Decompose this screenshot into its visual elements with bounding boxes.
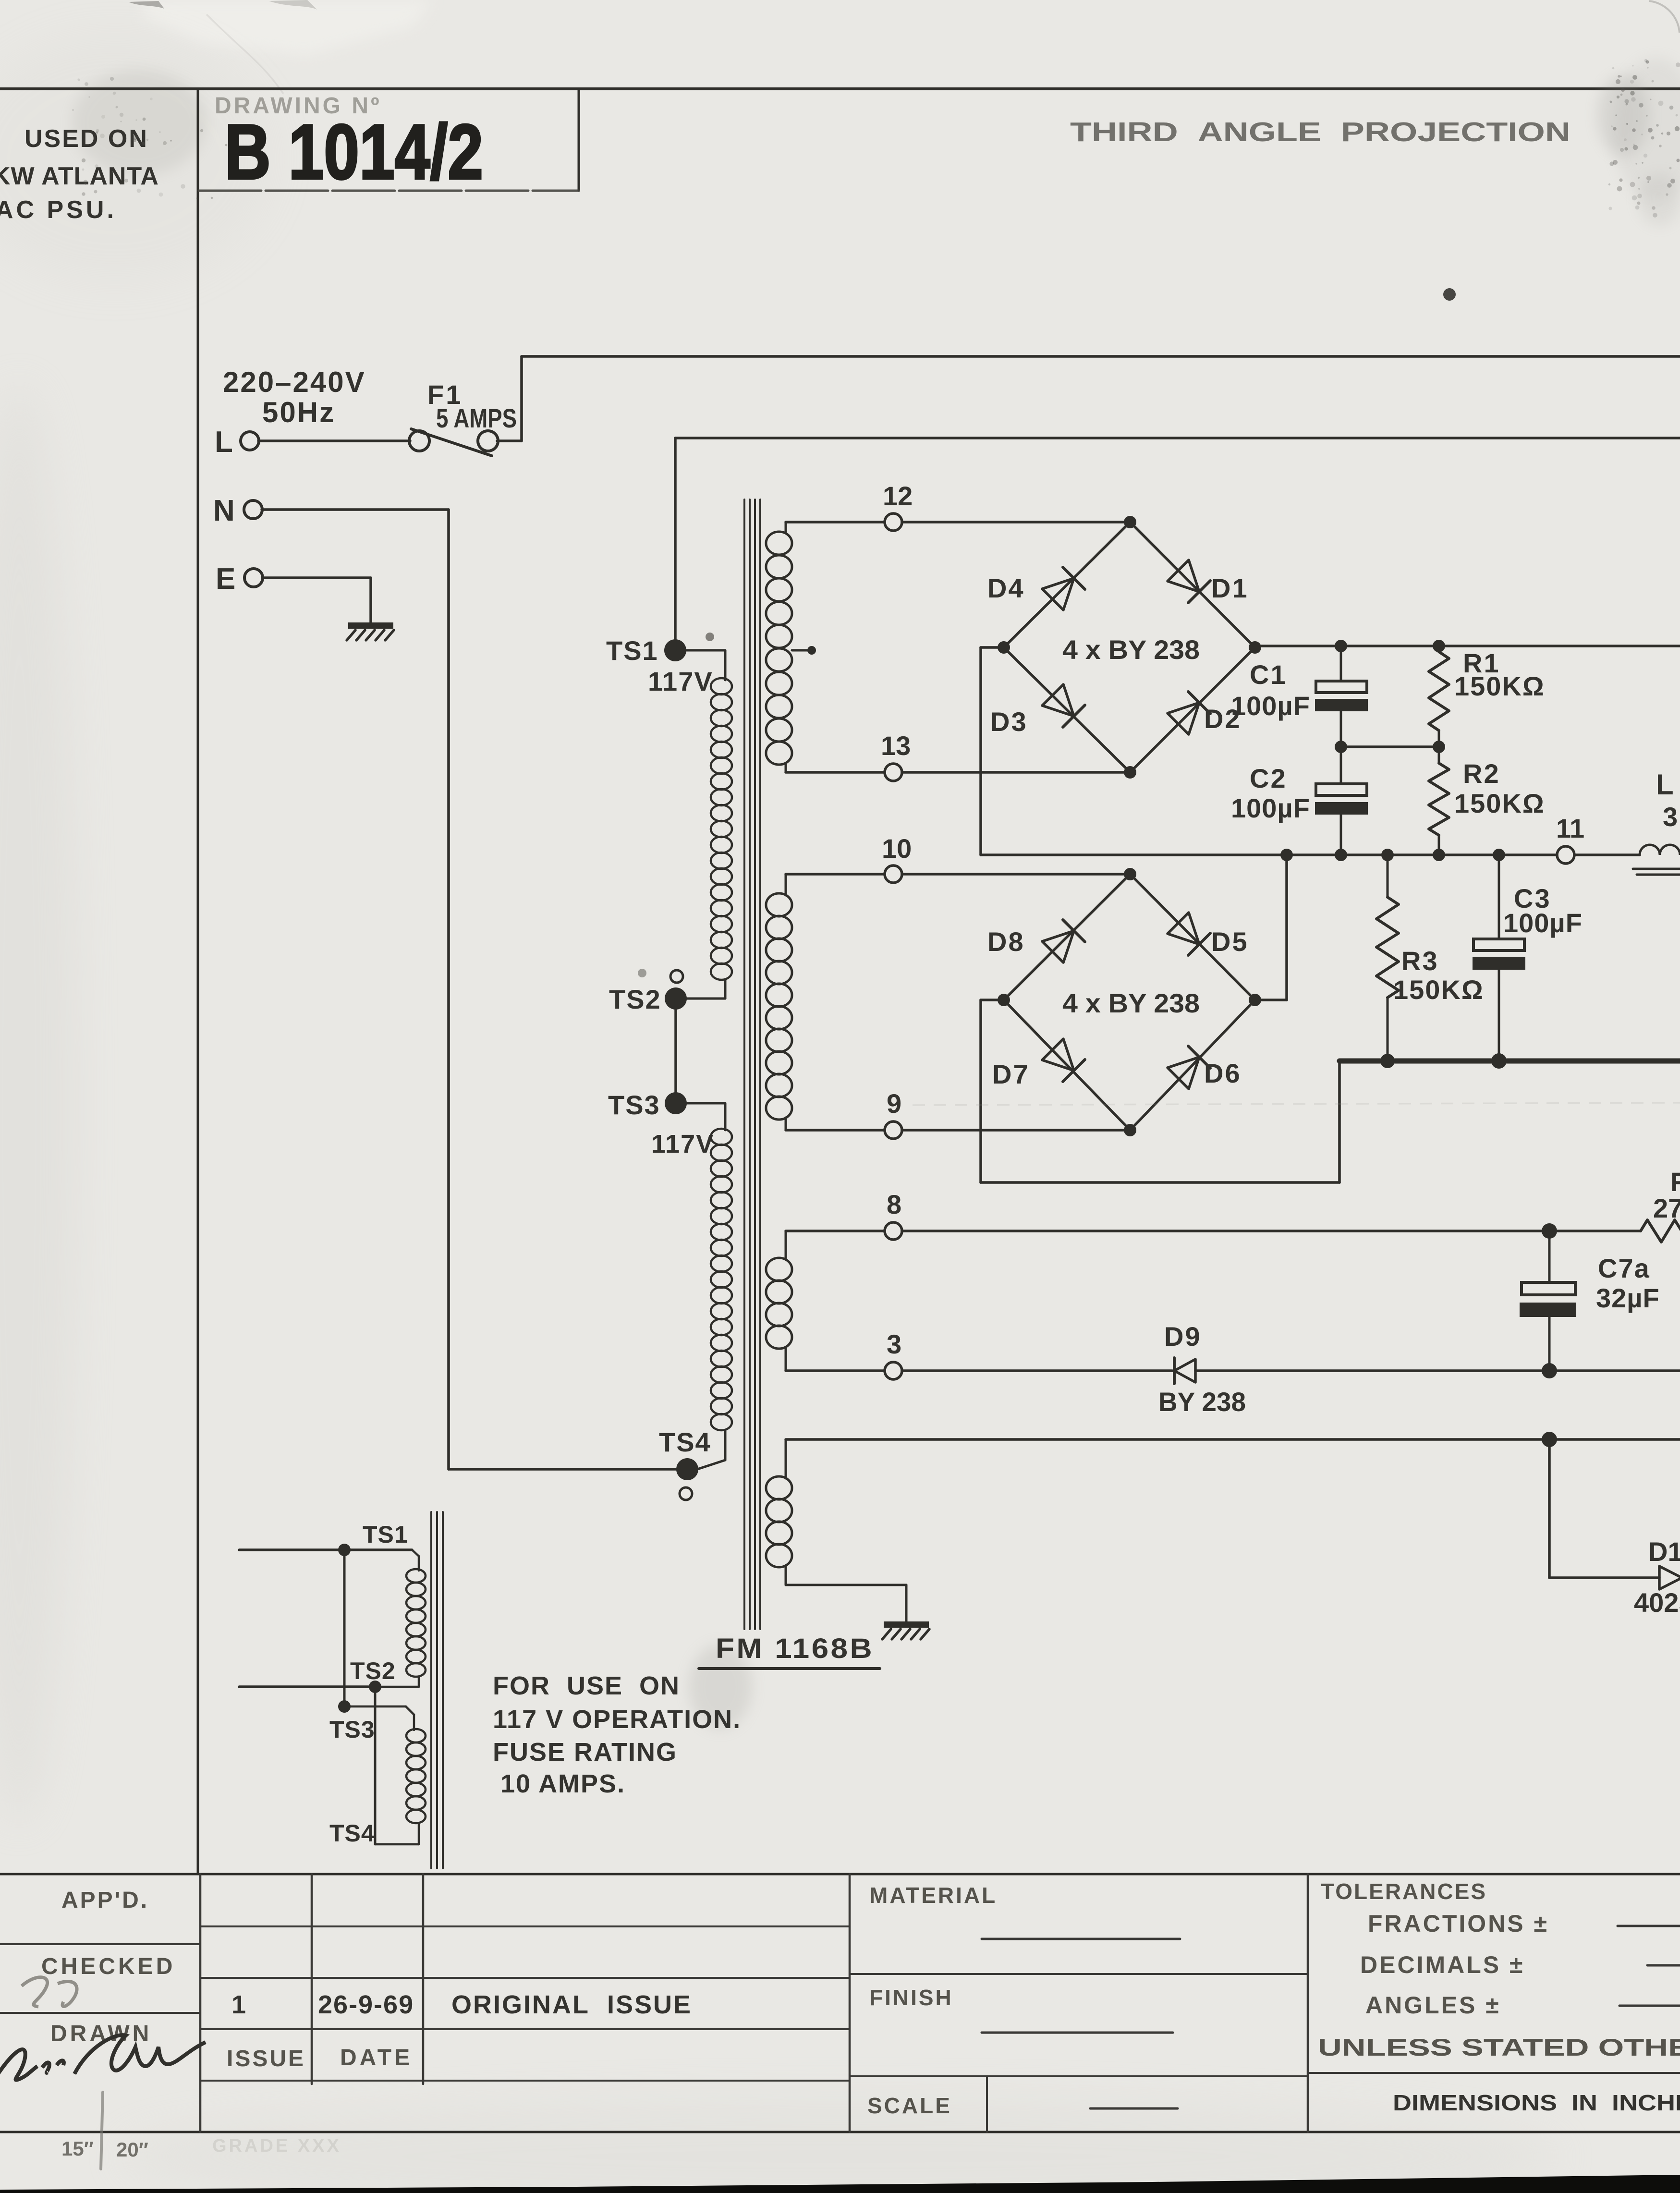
svg-text:10: 10 [882, 833, 912, 864]
terminal E [216, 562, 263, 596]
svg-text:D5: D5 [1211, 926, 1249, 957]
svg-text:TS1: TS1 [363, 1521, 408, 1548]
note for use on 117V [493, 1671, 741, 1798]
transformer T1 primary winding lower (TS3-TS4) [711, 1129, 732, 1430]
aux wire TS3 to winding lower [350, 1706, 414, 1730]
svg-text:TS1: TS1 [606, 635, 658, 666]
wire terminal 11 to choke [1574, 853, 1640, 856]
node C1/R1 mid [1335, 741, 1445, 753]
svg-text:C1: C1 [1250, 659, 1287, 690]
node bridge1 top [1124, 516, 1136, 528]
svg-text:D10: D10 [1648, 1536, 1680, 1567]
scale field [867, 2093, 1178, 2118]
tap TS2 [609, 984, 687, 1014]
capacitor C7a 32uF [1520, 1231, 1660, 1371]
svg-text:D1: D1 [1211, 573, 1249, 603]
svg-text:3: 3 [887, 1329, 901, 1359]
checked initials scribble [22, 1977, 77, 2007]
tolerances block [1318, 1879, 1680, 2061]
svg-text:3: 3 [1663, 802, 1678, 832]
svg-text:D4: D4 [987, 573, 1025, 603]
svg-text:R3: R3 [1401, 946, 1439, 976]
node bridge1 bottom [1124, 766, 1136, 779]
svg-text:TS4: TS4 [329, 1820, 375, 1847]
svg-text:4 x BY 238: 4 x BY 238 [1062, 634, 1200, 665]
wire D9 to C7a (net 3) [1195, 1369, 1680, 1372]
svg-text:D8: D8 [987, 926, 1025, 957]
rail bridge1 output (net +V1) [1260, 645, 1680, 647]
node mid rail C2 [1335, 849, 1347, 861]
resistor R3 150K [1376, 855, 1484, 1061]
transformer T1 secondary winding 12-13 [766, 532, 792, 765]
transformer T1 primary winding upper (TS1-TS2) [711, 678, 732, 980]
title block labels left [41, 1888, 175, 2047]
tap TS4 [659, 1427, 711, 1480]
choke L [1633, 768, 1680, 875]
wire winding to chassis ground [786, 1565, 906, 1621]
svg-text:CHECKED: CHECKED [41, 1954, 175, 1979]
svg-text:FRACTIONS ±: FRACTIONS ± [1368, 1910, 1549, 1937]
ground symbol (secondary) [882, 1621, 929, 1639]
svg-text:32µF: 32µF [1596, 1283, 1660, 1313]
secondary tap mark [792, 646, 816, 655]
svg-text:R2: R2 [1463, 758, 1500, 789]
wire terminal 12 to bridge 1 [902, 521, 1130, 524]
capacitor C2 100uF [1231, 747, 1368, 855]
svg-text:TS2: TS2 [350, 1657, 396, 1684]
heater rail (net 6.3V) [786, 1438, 1680, 1441]
diode D1 [1168, 560, 1249, 603]
svg-text:DIMENSIONS IN INCHES: DIMENSIONS IN INCHES [1393, 2090, 1680, 2115]
node 0V rail R3 [1380, 1054, 1395, 1068]
svg-text:150KΩ: 150KΩ [1393, 975, 1484, 1005]
svg-text:TS3: TS3 [329, 1716, 375, 1743]
svg-text:117 V OPERATION.: 117 V OPERATION. [493, 1705, 741, 1734]
svg-text:13: 13 [881, 731, 911, 761]
bridge2 type label 4 x BY 238 [1062, 988, 1200, 1018]
wire L to fuse [258, 439, 410, 442]
svg-text:APP'D.: APP'D. [61, 1888, 149, 1913]
svg-text:D3: D3 [990, 707, 1028, 737]
svg-text:TS4: TS4 [659, 1427, 711, 1457]
wire E to ground [262, 578, 371, 622]
drawing number box [199, 89, 579, 191]
svg-text:1: 1 [231, 1990, 246, 2019]
svg-text:FUSE RATING: FUSE RATING [493, 1738, 677, 1767]
diode D7 [992, 1039, 1085, 1089]
svg-text:117V: 117V [648, 666, 713, 696]
sheet size note 15x20 [61, 2092, 148, 2169]
diode D5 [1168, 913, 1249, 957]
aux node TS2 [350, 1657, 396, 1693]
top rail from fuse (net L) [522, 355, 1680, 358]
svg-text:D6: D6 [1204, 1058, 1242, 1088]
svg-text:4 x BY 238: 4 x BY 238 [1062, 988, 1200, 1018]
resistor R2 150K [1429, 747, 1545, 855]
node mid rail bridge2 [1280, 849, 1293, 861]
wire bridge1 left down to mid rail [981, 647, 1004, 855]
bridge rectifier 2 frame [1004, 874, 1255, 1130]
svg-text:12: 12 [883, 481, 913, 511]
resistor R4 270 (clipped) [1641, 1167, 1680, 1242]
diode D10 (clipped) [1634, 1536, 1680, 1618]
terminal 12 [883, 481, 913, 531]
fuse F1 5 AMPS [409, 379, 517, 456]
terminal 11 [1556, 813, 1584, 864]
svg-text:ORIGINAL ISSUE: ORIGINAL ISSUE [451, 1990, 692, 2019]
svg-text:TS3: TS3 [608, 1090, 660, 1120]
wire winding to terminal 8 [786, 1231, 885, 1260]
aux strap TS2-TS4 [329, 1687, 375, 1847]
terminal 9 [885, 1088, 902, 1139]
svg-text:ANGLES ±: ANGLES ± [1365, 1992, 1501, 2019]
wire bridge2 left to 0V rail [981, 1000, 1339, 1182]
tap TS3 117V [608, 1090, 714, 1158]
svg-text:9: 9 [887, 1088, 901, 1119]
svg-text:11: 11 [1556, 813, 1584, 843]
tap TS1 117V [606, 635, 713, 696]
node top rail / R1 [1433, 640, 1445, 652]
mid rail (net 11) [981, 853, 1557, 856]
aux strap TS1-TS3 [343, 1550, 346, 1706]
svg-text:220–240V: 220–240V [223, 366, 366, 398]
wire winding to terminal 12 [786, 522, 885, 533]
svg-text:B 1014/2: B 1014/2 [225, 109, 483, 195]
svg-text:KW ATLANTA: KW ATLANTA [0, 162, 159, 190]
transformer T1 secondary winding 10-9 [766, 893, 792, 1120]
node mid rail R3 [1381, 849, 1394, 861]
svg-text:N: N [213, 494, 235, 527]
wire primary to TS2 [686, 980, 725, 999]
capacitor C3 100uF [1473, 855, 1583, 1061]
terminal 13 [881, 731, 911, 781]
svg-text:26-9-69: 26-9-69 [318, 1990, 414, 2019]
svg-text:L: L [1656, 768, 1674, 801]
svg-text:C7a: C7a [1598, 1253, 1650, 1283]
supply rating label 220-240V 50Hz [223, 366, 366, 428]
node 0V rail C3 [1491, 1053, 1507, 1069]
aux node TS3 [329, 1700, 375, 1743]
faint stamp [212, 2136, 341, 2156]
svg-text:8: 8 [887, 1189, 901, 1219]
svg-text:20″: 20″ [116, 2138, 148, 2161]
ground symbol (mains earth) [347, 622, 394, 640]
wire winding to terminal 13 [786, 764, 885, 772]
aux winding lower [376, 1729, 426, 1844]
svg-text:USED ON: USED ON [24, 125, 148, 153]
svg-text:C2: C2 [1250, 763, 1287, 793]
node bridge2 left [998, 994, 1010, 1006]
svg-text:FM 1168B: FM 1168B [716, 1633, 874, 1664]
transformer T1 secondary winding 8-3 [766, 1258, 792, 1349]
wire TS3 to primary winding lower [686, 1103, 725, 1130]
bridge rectifier 1 frame [1004, 522, 1255, 772]
svg-text:TOLERANCES: TOLERANCES [1321, 1879, 1487, 1904]
svg-text:DATE: DATE [340, 2045, 413, 2071]
used-on note [0, 125, 159, 224]
wire terminal 13 to bridge 1 [902, 771, 1130, 774]
wire TS1 up to rail [674, 438, 677, 650]
svg-text:D7: D7 [992, 1059, 1030, 1089]
wire terminal 10 to bridge 2 [902, 873, 1130, 876]
diode D8 [987, 920, 1085, 962]
svg-text:D9: D9 [1164, 1321, 1202, 1352]
svg-text:150KΩ: 150KΩ [1454, 671, 1545, 701]
node net3 / C7a [1542, 1363, 1557, 1378]
wire down to D10 [1549, 1439, 1659, 1578]
svg-text:MATERIAL: MATERIAL [869, 1883, 997, 1908]
svg-text:R4: R4 [1670, 1167, 1680, 1197]
aux winding upper [406, 1550, 426, 1687]
svg-text:TS2: TS2 [609, 984, 661, 1014]
diode D9 BY238 [1158, 1321, 1246, 1417]
node mid rail C3 [1493, 849, 1505, 861]
diode D3 [990, 684, 1085, 737]
capacitor C1 100uF [1231, 646, 1368, 747]
title block top border [0, 1873, 1680, 1876]
svg-text:50Hz: 50Hz [262, 396, 335, 428]
svg-text:ISSUE: ISSUE [227, 2046, 305, 2071]
third angle projection heading [1070, 117, 1570, 147]
wire winding to terminal 10 [786, 874, 885, 895]
svg-text:GRADE XXX: GRADE XXX [212, 2136, 341, 2156]
terminal 8 [885, 1189, 902, 1240]
unused terminal above TS2 [670, 970, 683, 983]
svg-text:10 AMPS.: 10 AMPS. [500, 1769, 625, 1798]
wire winding to heater rail [785, 1439, 787, 1478]
diode D2 [1168, 692, 1242, 734]
scan bottom edge [0, 2175, 1680, 2193]
wire bridge2 right up to mid rail [1260, 855, 1287, 1000]
bridge1 type label 4 x BY 238 [1062, 634, 1200, 665]
0V heavy rail [1339, 1059, 1680, 1064]
svg-text:15″: 15″ [61, 2137, 94, 2160]
wire terminal 9 to bridge 2 [902, 1129, 1130, 1132]
drawn signature J.A.White [0, 2035, 206, 2082]
svg-text:L: L [215, 426, 233, 459]
svg-text:DECIMALS ±: DECIMALS ± [1360, 1951, 1524, 1978]
transformer T1 secondary winding heater [766, 1476, 792, 1567]
svg-text:100µF: 100µF [1231, 793, 1310, 823]
transformer T1 core [744, 500, 760, 1629]
node mid rail R1R2 [1433, 849, 1445, 861]
rail from TS1 (net TS1) [675, 437, 1680, 439]
node bridge1 right [1249, 641, 1261, 654]
title block bottom border [0, 2131, 1680, 2133]
node bridge1 left [998, 641, 1010, 654]
title block column lines [200, 1874, 1308, 2132]
finish field [869, 1985, 1173, 2033]
svg-text:BY 238: BY 238 [1158, 1387, 1246, 1417]
drawing number B1014/2 [225, 109, 483, 195]
dimensions note [1393, 2090, 1680, 2115]
resistor R1 150K [1429, 646, 1545, 747]
svg-text:5 AMPS: 5 AMPS [436, 403, 517, 433]
aux detail wire TS1 [239, 1548, 412, 1551]
border top edge [0, 87, 1680, 90]
rail terminal 8 to R4 (net 8) [902, 1230, 1641, 1232]
wire N down to TS4 [262, 510, 676, 1469]
terminal 10 [882, 833, 912, 883]
svg-text:40250: 40250 [1634, 1587, 1680, 1618]
svg-text:117V: 117V [651, 1130, 714, 1158]
issue/date labels [227, 2045, 413, 2071]
node bridge2 top [1124, 868, 1136, 880]
wire fuse to top rail [497, 356, 522, 441]
svg-text:THIRD ANGLE PROJECTION: THIRD ANGLE PROJECTION [1070, 117, 1570, 147]
svg-text:FOR USE ON: FOR USE ON [493, 1671, 680, 1700]
svg-text:270: 270 [1653, 1193, 1680, 1223]
terminal 3 [885, 1329, 902, 1379]
svg-text:UNLESS STATED OTHERWISE: UNLESS STATED OTHERWISE [1318, 2034, 1680, 2061]
wire TS1 to primary winding [685, 650, 725, 680]
terminal L [215, 426, 259, 459]
svg-text:E: E [216, 562, 235, 596]
transformer label FM 1168B [699, 1633, 880, 1669]
svg-text:FINISH: FINISH [869, 1985, 953, 2010]
title block row lines [0, 1926, 1680, 2132]
issue row [231, 1990, 692, 2019]
material field [869, 1883, 1180, 1939]
node net8 / C7a [1542, 1223, 1557, 1239]
border left edge [197, 89, 199, 1874]
drawing number label [215, 93, 382, 119]
aux node TS1 [338, 1521, 408, 1556]
svg-text:100µF: 100µF [1503, 908, 1583, 938]
unused terminal below TS4 [680, 1487, 692, 1500]
aux wire TS2 [239, 1685, 419, 1688]
node bridge2 right [1249, 994, 1261, 1006]
svg-text:SCALE: SCALE [867, 2093, 952, 2118]
node top rail / C1 [1335, 640, 1347, 652]
node heater rail branch [1542, 1432, 1557, 1447]
aux core [431, 1512, 443, 1868]
strap TS2 to TS3 [674, 999, 677, 1103]
diode D6 [1168, 1046, 1242, 1089]
svg-text:AC PSU.: AC PSU. [0, 196, 117, 224]
wire primary lower to TS4 [697, 1430, 725, 1469]
wire terminal 3 to D9 [902, 1369, 1172, 1372]
terminal N [213, 494, 262, 527]
svg-text:100µF: 100µF [1231, 691, 1310, 721]
wire winding to terminal 9 [786, 1118, 885, 1130]
node bridge2 bottom [1124, 1124, 1136, 1136]
diode D4 [987, 567, 1085, 610]
wire winding to terminal 3 [786, 1348, 885, 1371]
svg-text:150KΩ: 150KΩ [1454, 788, 1545, 818]
